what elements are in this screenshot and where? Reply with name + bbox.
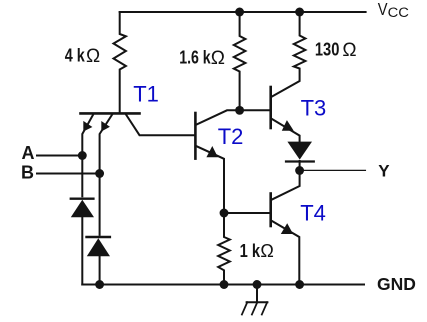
svg-text:Ω: Ω [342,40,356,61]
svg-text:B: B [21,162,34,182]
wire T2 emitter to T4 base [224,212,269,214]
diode D2 (input B clamp) [85,236,111,238]
node dot top rail / R2 [235,8,244,17]
diode D3 (output level shift) [287,142,312,160]
diode D2 lower wire [99,256,101,284]
transistor T3 bar [269,87,272,128]
svg-text:GND: GND [377,274,416,294]
node dot GND rail / R4 [220,280,229,289]
node dot output Y [295,166,304,175]
resistor R4 1k body [218,213,230,285]
transistor T2 collector wire [197,110,270,124]
arrowhead T4 emitter [281,223,293,234]
node dot T3 base [235,106,244,115]
svg-text:Ω: Ω [211,48,225,69]
svg-text:4 k: 4 k [65,46,86,66]
resistor R2 1.6k body [234,12,246,110]
wire bottom GND rail [82,284,364,286]
resistor R3 130 body [272,12,305,97]
svg-text:T2: T2 [218,124,244,149]
resistor R1 4k body [114,12,126,113]
svg-text:1.6 k: 1.6 k [179,47,211,67]
node dot top rail / R3 [295,8,304,17]
arrowhead T1 emitter1 [83,121,92,132]
wire VCC top rail [120,11,366,13]
diode D1 (input A clamp) [70,198,95,200]
transistor T4 collector wire [272,171,300,200]
node dot GND rail / T4 emitter [295,280,304,289]
svg-text:T3: T3 [301,95,327,120]
svg-text:T4: T4 [300,200,326,225]
node dot T2 emitter / R4 [220,209,229,218]
node dot input B [95,169,104,178]
arrowhead T1 emitter2 [101,121,110,132]
transistor T2 emitter wire [197,146,225,213]
transistor T1 collector wire [126,115,194,136]
svg-text:T1: T1 [133,81,159,106]
svg-text:A: A [22,143,35,163]
transistor T3 emitter wire [272,119,300,141]
svg-text:V: V [378,0,388,19]
wire input A [37,155,82,157]
wire input B [37,173,100,175]
svg-text:Ω: Ω [260,241,273,261]
transistor T1 emitter1 wire [82,115,93,197]
svg-text:1 k: 1 k [240,241,261,261]
transistor T4 emitter wire [272,221,299,285]
svg-text:CC: CC [388,5,410,20]
transistor T1 bar [81,112,140,115]
svg-text:Y: Y [378,162,390,181]
node dot GND rail / D2 [95,280,104,289]
ground symbol [247,301,268,303]
svg-text:130: 130 [315,39,340,59]
transistor T1 emitter2 wire [100,115,113,235]
svg-text:Ω: Ω [86,46,100,67]
transistor T4 bar [269,194,272,227]
diode D3 cathode wire to node Y [299,161,301,171]
wire output Y [304,169,366,171]
diode D1 lower wire [81,217,83,284]
arrowhead T2 emitter [206,146,218,157]
transistor T2 bar [194,113,197,159]
node dot GND rail / ground stub [253,280,262,289]
node dot input A [78,151,87,160]
ground stub wire [256,285,258,303]
arrowhead T3 emitter [282,120,294,131]
